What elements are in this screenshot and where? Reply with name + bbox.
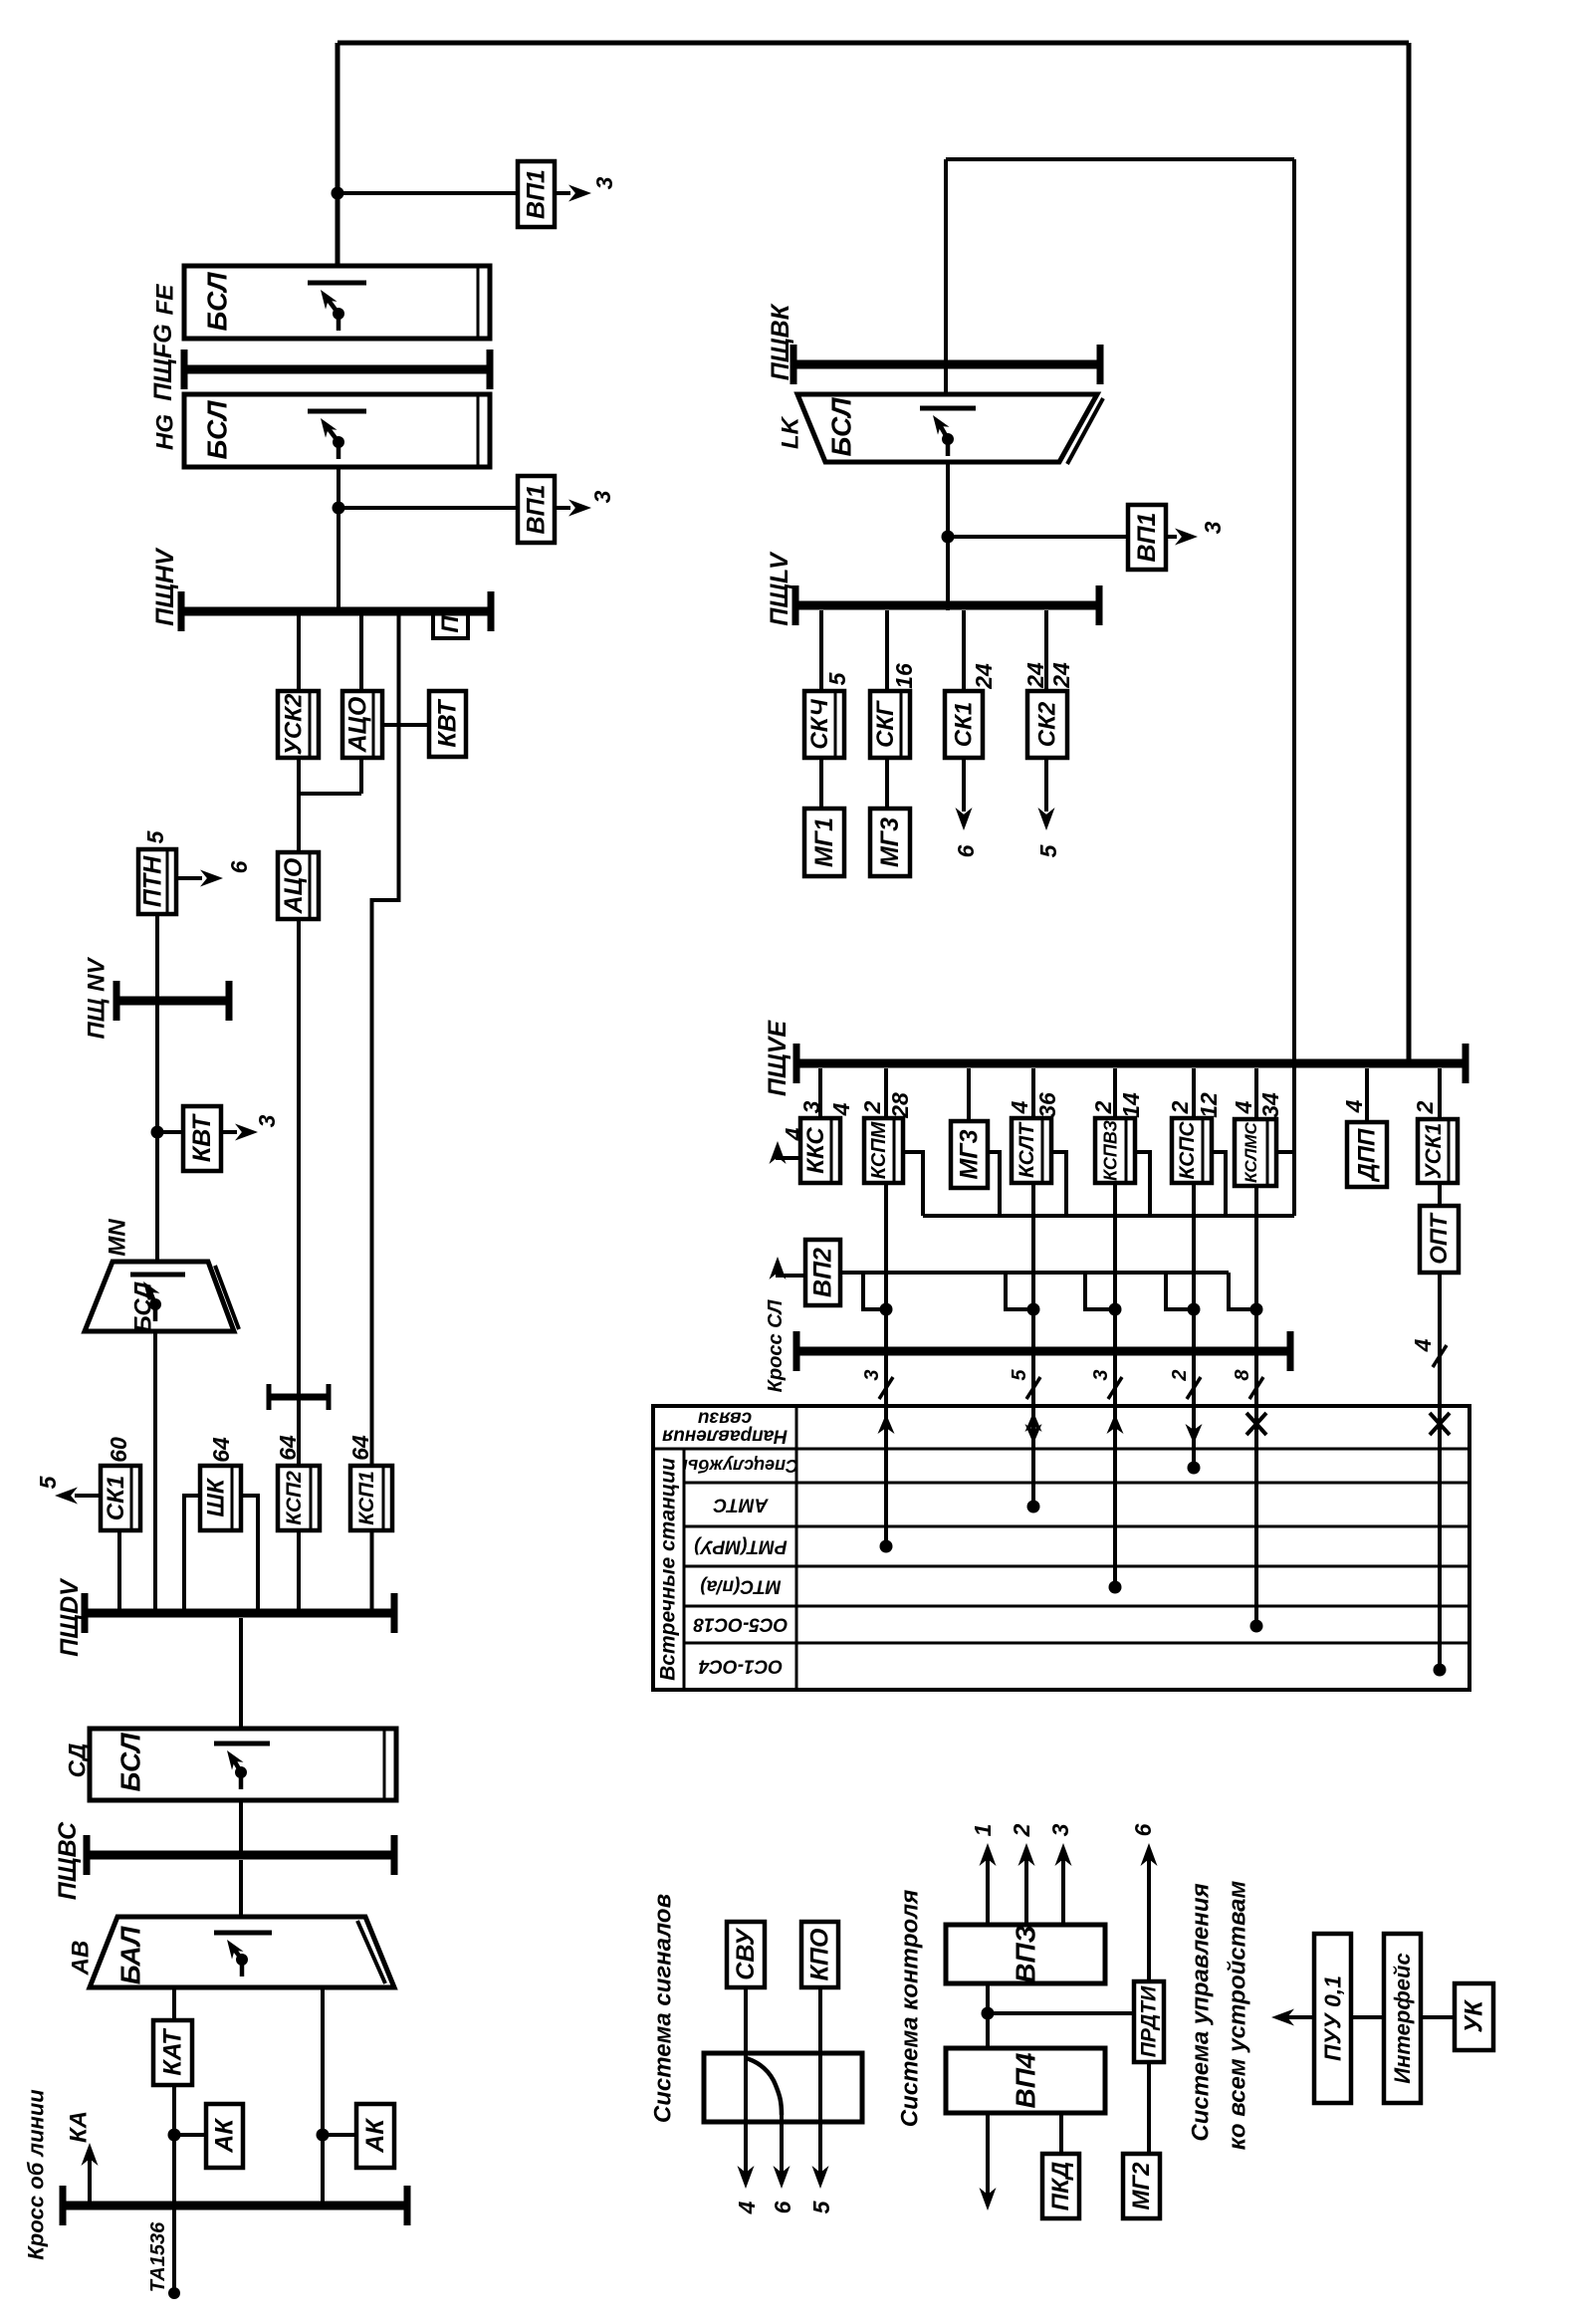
svg-text:БСЛ: БСЛ [202, 272, 233, 332]
svg-text:ПЩFG: ПЩFG [149, 324, 177, 400]
wire to KSLMS [1254, 1068, 1258, 1119]
svg-text:36: 36 [1034, 1092, 1060, 1118]
wire SVU down [744, 1987, 748, 2174]
arrow out VP1a [555, 191, 570, 195]
svg-text:3: 3 [798, 1100, 824, 1113]
node junction KVT2 [151, 1126, 164, 1139]
wire to KKS [818, 1068, 822, 1118]
svg-text:24: 24 [1022, 662, 1048, 689]
box BSL FE [184, 266, 490, 339]
bus fragment on KSP2 line [269, 1394, 329, 1401]
svg-text:Кросс СЛ: Кросс СЛ [765, 1298, 787, 1392]
wire KPO down [818, 1987, 822, 2174]
box KKS [800, 1118, 840, 1183]
svg-text:ПЩLV: ПЩLV [766, 551, 793, 626]
table col split 1 [683, 1449, 686, 1690]
svg-text:12: 12 [1196, 1092, 1222, 1118]
svg-text:БСЛ: БСЛ [115, 1733, 146, 1792]
svg-text:5: 5 [35, 1475, 61, 1489]
node TA1536 endpoint [168, 2287, 180, 2299]
cross mark OPT line [1430, 1413, 1450, 1435]
trapezoid BAL AV [90, 1917, 394, 1987]
svg-text:СКЧ: СКЧ [806, 698, 833, 749]
wire to VP1c [948, 535, 1128, 539]
wire VP4 to PKD [1059, 2113, 1063, 2154]
svg-text:УСК2: УСК2 [281, 693, 308, 755]
svg-text:4: 4 [1410, 1338, 1436, 1352]
wire ATsO upper down [359, 758, 363, 794]
tick 5 (line x=1038) [1026, 1377, 1040, 1399]
node junction PRDTI [982, 2007, 995, 2020]
wire HG to PShchHV bus [337, 467, 340, 611]
svg-text:2: 2 [1167, 1100, 1193, 1114]
wire to USK1 [1438, 1068, 1442, 1119]
box SKG [870, 691, 910, 758]
box KPO [801, 1922, 838, 1987]
wire curve down [780, 2113, 784, 2174]
svg-text:ОПТ: ОПТ [1426, 1212, 1453, 1265]
svg-text:HG: HG [152, 414, 179, 450]
arrow out VP2 [778, 1267, 805, 1276]
box Interface [1384, 1934, 1421, 2103]
svg-text:3: 3 [1200, 521, 1226, 534]
arrow out KVT2 [221, 1130, 237, 1134]
box VP1c [1128, 505, 1166, 570]
svg-text:БАЛ: БАЛ [115, 1926, 146, 1984]
box MG3 (left) [870, 809, 910, 876]
tick 4 (OPT line) [1433, 1345, 1447, 1367]
svg-text:Встречные станции: Встречные станции [657, 1458, 680, 1681]
svg-text:5: 5 [1009, 1369, 1030, 1381]
svg-text:ПТН: ПТН [139, 855, 167, 907]
table header split [653, 1448, 1469, 1451]
svg-text:5: 5 [1035, 843, 1061, 857]
svg-text:4: 4 [734, 2201, 760, 2214]
svg-text:МГ3: МГ3 [876, 817, 904, 867]
wire bus to BSL SD [239, 1618, 243, 1729]
svg-text:3: 3 [589, 490, 615, 503]
svg-text:ШК: ШК [203, 1477, 230, 1516]
wire TA1536 [172, 2206, 176, 2288]
svg-text:БСЛ: БСЛ [826, 397, 857, 457]
svg-text:ПЩВС: ПЩВС [54, 1821, 82, 1900]
box P [433, 610, 468, 638]
box PRDTI [1134, 1981, 1164, 2062]
svg-text:16: 16 [891, 663, 917, 689]
svg-text:28: 28 [887, 1092, 913, 1119]
wire PTN to MN [155, 914, 159, 1262]
box VP1b [518, 476, 555, 543]
svg-text:КСПС: КСПС [1176, 1121, 1199, 1180]
svg-text:АК: АК [361, 2118, 389, 2154]
svg-text:ОС1-ОС4: ОС1-ОС4 [698, 1656, 783, 1677]
wire KAT down to bus [172, 2085, 176, 2206]
box KSPVZ [1095, 1118, 1135, 1183]
wire PUU-Interface [1351, 2015, 1384, 2019]
arrow PUU out [1287, 2015, 1314, 2019]
svg-text:14: 14 [1118, 1092, 1144, 1118]
svg-text:ПЩВК: ПЩВК [767, 303, 794, 380]
wire LK drop [944, 159, 948, 394]
wire SKCh to MG1 [819, 758, 823, 809]
wire VP2 step2 [1006, 1273, 1033, 1309]
node junction AK2 [317, 2129, 330, 2142]
box PUU 0,1 [1314, 1934, 1351, 2103]
arrow out SK1 left [75, 1494, 101, 1498]
svg-text:КСПВЗ: КСПВЗ [1101, 1120, 1121, 1181]
wire to VP1b [339, 506, 518, 510]
svg-text:ПРДТИ: ПРДТИ [1138, 1985, 1161, 2057]
box BSL SD [90, 1729, 396, 1800]
wire KSLT down [1031, 1183, 1035, 1346]
box MG2 [1123, 2154, 1160, 2218]
wire Interface-UK [1421, 2015, 1455, 2019]
wire to KSPM [884, 1068, 888, 1118]
wire to DPP [1365, 1068, 1369, 1122]
svg-text:ОС5-ОС18: ОС5-ОС18 [693, 1614, 788, 1635]
svg-text:3: 3 [591, 176, 617, 189]
svg-text:4: 4 [1231, 1100, 1256, 1114]
wire KSPVZ stub [1135, 1152, 1150, 1216]
svg-text:связи: связи [697, 1408, 752, 1429]
wire MN to PShchDV bus [153, 1331, 157, 1609]
bus PShchLV [795, 601, 1099, 610]
svg-text:24: 24 [971, 663, 997, 690]
svg-text:ВП1: ВП1 [523, 169, 551, 219]
arrow VP3 out 1 [986, 1858, 990, 1925]
switch symbol MN [130, 1273, 185, 1278]
svg-text:РМТ(МРУ): РМТ(МРУ) [694, 1536, 787, 1557]
box SVU [727, 1922, 765, 1987]
wire ATsO lower to KSP2 [297, 919, 301, 1466]
box VP2 [805, 1240, 840, 1305]
switch symbol HG [308, 409, 366, 414]
table frame [653, 1406, 1469, 1690]
svg-text:24: 24 [1048, 662, 1074, 689]
svg-text:СК2: СК2 [1034, 701, 1061, 747]
svg-text:СД: СД [65, 1743, 92, 1778]
svg-text:АЦО: АЦО [280, 857, 308, 914]
node junction VP1a [332, 187, 344, 200]
svg-text:2: 2 [859, 1100, 885, 1114]
box KSP1 [350, 1466, 392, 1530]
svg-text:MN: MN [105, 1219, 131, 1257]
wire PShchVS to BAL [239, 1860, 243, 1917]
wire ShK left leg [184, 1496, 200, 1609]
wire KSLMS down [1254, 1186, 1258, 1346]
svg-text:LK: LK [778, 415, 804, 449]
svg-text:64: 64 [208, 1437, 234, 1463]
svg-text:ПЩDV: ПЩDV [56, 1577, 84, 1657]
box UK [1455, 1983, 1493, 2050]
svg-text:4: 4 [1007, 1100, 1032, 1114]
svg-text:МТС(п/а): МТС(п/а) [700, 1576, 781, 1597]
box MG3 (mid) [951, 1121, 988, 1188]
svg-text:Кросс об линии: Кросс об линии [24, 2089, 49, 2260]
arrow VP3 out 2 [1024, 1858, 1028, 1925]
svg-text:АВ: АВ [68, 1941, 95, 1976]
svg-text:СК1: СК1 [951, 702, 978, 747]
box SKCh [804, 691, 844, 758]
wire VP3-VP4 [986, 1983, 990, 2048]
wire VP2 step1 [863, 1273, 886, 1309]
svg-text:6: 6 [770, 2201, 795, 2213]
box VP3 [946, 1925, 1105, 1983]
svg-text:5: 5 [808, 2200, 834, 2213]
svg-text:3: 3 [1090, 1369, 1112, 1380]
bus PShch NV [116, 997, 229, 1006]
wire collector [923, 1214, 1294, 1218]
wire PRDTI to MG2 [1147, 2062, 1151, 2154]
svg-text:Система управления: Система управления [1188, 1883, 1215, 2141]
svg-text:5: 5 [824, 671, 850, 685]
box DPP [1347, 1122, 1387, 1187]
wire bus to USK2 [297, 615, 301, 691]
wire SKG to MG3 [885, 758, 889, 809]
arrow out VP1b [555, 506, 570, 510]
svg-text:ВП1: ВП1 [523, 485, 551, 535]
node OPT endpoint [1434, 1664, 1447, 1677]
wire bus to ATsO upper [359, 615, 363, 691]
box KSPM [864, 1118, 903, 1183]
svg-text:СК1: СК1 [103, 1476, 129, 1520]
curve branch [746, 2058, 782, 2115]
table row line 1 [684, 1482, 1469, 1485]
box VP1a [518, 161, 555, 227]
arrow VP3 out 3 [1061, 1858, 1065, 1925]
wire OPT down to table [1438, 1273, 1442, 1406]
wire USK1 to OPT [1438, 1183, 1442, 1206]
wire top trunk [338, 41, 1409, 46]
wire KSP1 down [370, 1530, 374, 1609]
svg-text:3: 3 [254, 1114, 280, 1127]
svg-text:5: 5 [142, 829, 168, 843]
double edge BSL FE [477, 268, 480, 337]
bus PShchHV [181, 607, 491, 616]
box SK1 (60) [101, 1466, 140, 1530]
box SK2 (24) [1027, 691, 1067, 758]
svg-text:Система контроля: Система контроля [897, 1890, 924, 2128]
svg-text:КПО: КПО [806, 1928, 834, 1980]
cross mark KSLMS line [1246, 1413, 1266, 1435]
switch symbol LK [920, 406, 976, 411]
tick 3 (line x=890) [879, 1377, 893, 1399]
box KVT upper [429, 691, 466, 757]
wire drop to BSL FE [336, 43, 340, 266]
svg-text:3: 3 [861, 1369, 883, 1380]
svg-text:ТА1536: ТА1536 [147, 2221, 169, 2292]
box ATsO upper [342, 691, 382, 758]
arrow SK1 down [962, 758, 966, 812]
wire PShchVK long drop [1292, 159, 1296, 1216]
wire LK to PShchLV [946, 462, 950, 610]
svg-text:ВП2: ВП2 [809, 1248, 837, 1297]
svg-text:ВП4: ВП4 [1011, 2052, 1041, 2108]
table col split 2 [795, 1406, 798, 1690]
svg-text:ДПП: ДПП [1354, 1128, 1381, 1183]
wire to KSLT [1031, 1068, 1035, 1118]
shadow edge MN [215, 1266, 239, 1329]
wire ATsO-KVT [382, 723, 429, 727]
bus PShchVS [87, 1851, 394, 1860]
svg-text:ПЩ NV: ПЩ NV [84, 957, 111, 1040]
wire to AK2 [323, 2133, 356, 2137]
table row line 2 [684, 1525, 1469, 1528]
wire KSPM into table [884, 1346, 888, 1546]
box KSP2 [278, 1466, 320, 1530]
wire trunk right drop to PShchVE bus [1407, 43, 1412, 1062]
double edge BSL SD [383, 1731, 386, 1798]
svg-text:ККС: ККС [802, 1127, 829, 1174]
node junction VP1b [333, 502, 345, 515]
wire SK1 down [117, 1530, 121, 1609]
box KAT [153, 2020, 192, 2085]
wire KSLT into table [1031, 1346, 1035, 1507]
table row line 5 [684, 1642, 1469, 1645]
tick 2 (line x=1199) [1187, 1377, 1201, 1399]
svg-text:АМТС: АМТС [713, 1495, 769, 1515]
svg-text:КВТ: КВТ [188, 1112, 216, 1162]
wire to PRDTI [988, 2011, 1134, 2015]
svg-text:ПУУ 0,1: ПУУ 0,1 [1320, 1975, 1346, 2061]
box PTN [138, 849, 176, 914]
table row line 4 [684, 1605, 1469, 1608]
svg-text:КСЛТ: КСЛТ [1016, 1121, 1038, 1178]
bus PShchVE [796, 1059, 1466, 1068]
svg-text:8: 8 [1232, 1369, 1253, 1381]
wire USK2 down [297, 758, 301, 794]
box USK2 [278, 691, 319, 758]
svg-text:КСЛМС: КСЛМС [1242, 1121, 1260, 1182]
svg-text:УК: УК [1461, 1999, 1488, 2033]
svg-text:ПКД: ПКД [1047, 2162, 1074, 2210]
svg-text:Интерфейс: Интерфейс [1390, 1953, 1415, 2083]
svg-text:3: 3 [1047, 1823, 1073, 1836]
arrow VP4 down [986, 2113, 990, 2196]
arrow out VP1c [1166, 535, 1177, 539]
svg-text:КА: КА [66, 2111, 93, 2143]
bus Kross ob linii [63, 2202, 407, 2210]
arrow PRDTI up [1147, 1858, 1151, 1981]
wire KSPS stub [1212, 1152, 1226, 1216]
svg-text:ко всем устройствам: ко всем устройствам [1225, 1881, 1251, 2151]
wire VP2 step4 [1166, 1273, 1194, 1309]
wire to SK2 [1044, 610, 1048, 691]
wire KSLT stub [1051, 1152, 1066, 1216]
node junction VP1c [942, 531, 955, 544]
svg-text:Система сигналов: Система сигналов [650, 1894, 677, 2123]
svg-text:Спецслужбы: Спецслужбы [682, 1456, 798, 1476]
box AK1 [206, 2104, 243, 2168]
svg-text:КСП2: КСП2 [283, 1471, 306, 1525]
wire ShK right leg [241, 1496, 258, 1609]
wire KSPS into table [1192, 1346, 1196, 1468]
shadow edge LK [1067, 398, 1103, 464]
box AK2 [356, 2104, 394, 2168]
wire to KVT2 [157, 1130, 183, 1134]
arrow KA [88, 2148, 92, 2206]
bus PShchDV [85, 1609, 394, 1618]
wire to SK1 [962, 610, 966, 691]
tick 3 (line x=1120) [1108, 1377, 1122, 1399]
svg-text:КВТ: КВТ [434, 698, 462, 748]
svg-text:FE: FE [152, 284, 179, 316]
tick 8 (line x=1262) [1249, 1377, 1263, 1399]
svg-text:СВУ: СВУ [732, 1927, 760, 1980]
wire to KSPVZ [1113, 1068, 1117, 1118]
box signal matrix [704, 2053, 862, 2122]
wire bus long drop with jog [372, 615, 399, 1466]
wire to SKG [885, 610, 889, 691]
svg-text:4: 4 [828, 1102, 854, 1116]
wire KSPM stub [903, 1152, 923, 1216]
box ATsO lower [278, 852, 319, 919]
node junction AK1 [168, 2129, 181, 2142]
double edge BSL HG [477, 396, 480, 465]
wire to KSPS [1192, 1068, 1196, 1118]
arrow SK2 down [1044, 758, 1048, 812]
box SK1 (24) [945, 691, 983, 758]
wire OPT into table [1438, 1406, 1442, 1670]
arrow out KKS [778, 1147, 800, 1158]
svg-text:ВПЗ: ВПЗ [1011, 1925, 1041, 1982]
wire SD to PShchVS [239, 1800, 243, 1854]
svg-text:34: 34 [1257, 1092, 1283, 1118]
wire KSPVZ into table [1113, 1346, 1117, 1587]
bus PShchVK [793, 360, 1100, 369]
trapezoid BSL MN [85, 1262, 234, 1331]
svg-text:6: 6 [226, 860, 252, 873]
wire KSPVZ down [1113, 1183, 1117, 1346]
svg-text:АК: АК [211, 2118, 239, 2154]
box BSL HG [184, 394, 490, 467]
svg-text:4: 4 [1341, 1099, 1367, 1113]
wire BAL to KAT [172, 1987, 176, 2020]
wire VP2 step3 [1085, 1273, 1115, 1309]
svg-text:2: 2 [1169, 1369, 1191, 1381]
svg-text:2: 2 [1412, 1100, 1438, 1114]
wire to VP1a [338, 191, 518, 195]
svg-text:БСЛ: БСЛ [130, 1281, 157, 1332]
svg-text:АЦО: АЦО [344, 696, 372, 753]
svg-text:2: 2 [1090, 1100, 1116, 1114]
svg-text:СКГ: СКГ [872, 700, 899, 748]
svg-text:1: 1 [970, 1824, 996, 1837]
svg-text:64: 64 [275, 1435, 301, 1461]
svg-text:П: П [437, 615, 464, 633]
box KVT2 [183, 1106, 221, 1171]
wire VP2 collector [840, 1271, 1229, 1275]
wire KSLMS into table [1254, 1346, 1258, 1626]
wire KSPM down [884, 1183, 888, 1346]
switch symbol FE [308, 281, 366, 286]
svg-text:МГ2: МГ2 [1128, 2162, 1155, 2210]
trapezoid BSL LK [797, 394, 1097, 462]
box KSLMS [1235, 1119, 1276, 1186]
arrow out PTN [176, 876, 202, 880]
svg-text:МГ3: МГ3 [956, 1129, 984, 1179]
wire to AK1 [174, 2133, 206, 2137]
box OPT [1420, 1206, 1459, 1273]
svg-text:60: 60 [106, 1437, 131, 1463]
bus Kross SL [796, 1347, 1290, 1356]
svg-text:ВП1: ВП1 [1133, 513, 1161, 563]
box KSLT [1012, 1118, 1051, 1183]
box USK1 [1418, 1119, 1458, 1183]
wire BAL right leg down [321, 1987, 325, 2206]
svg-text:КСП1: КСП1 [355, 1471, 378, 1525]
bus PShchFG [184, 365, 490, 374]
